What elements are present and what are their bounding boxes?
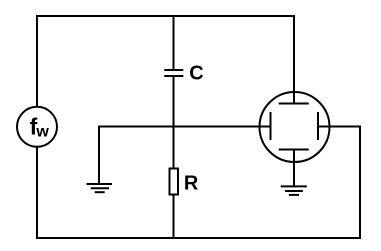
tube cathode bar — [279, 149, 309, 151]
wire left rail lower — [36, 147, 38, 239]
ground left — [87, 184, 113, 192]
svg-text:R: R — [184, 173, 199, 195]
wire resistor to bottom rail — [173, 196, 175, 240]
ground right — [281, 186, 307, 195]
resistor R — [170, 169, 199, 195]
wire bottom rail — [36, 237, 361, 239]
tube envelope — [260, 92, 330, 162]
wire right lead — [318, 126, 361, 128]
svg-text:w: w — [35, 124, 49, 141]
wire right rail — [359, 126, 361, 240]
capacitor C — [164, 63, 203, 85]
wire grid lead — [99, 127, 271, 185]
svg-text:C: C — [189, 63, 203, 85]
wire top rail — [36, 15, 295, 17]
wire capacitor branch upper — [173, 15, 175, 69]
tube right grid bar — [317, 112, 319, 140]
tube anode bar — [279, 103, 309, 105]
wire cathode lead — [293, 150, 295, 187]
source fw — [17, 107, 57, 147]
wire anode lead — [293, 16, 295, 104]
wire capacitor to resistor — [173, 77, 175, 168]
tube left grid bar — [270, 112, 272, 140]
wire left rail upper — [36, 15, 38, 107]
